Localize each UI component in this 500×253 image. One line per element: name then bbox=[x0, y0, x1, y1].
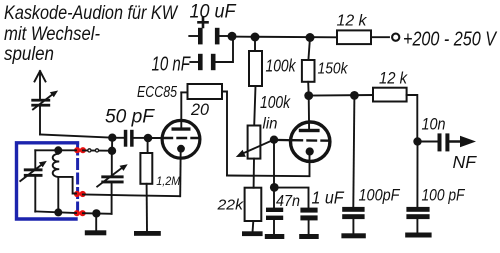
resistor 12 k (HT feed) bbox=[337, 30, 389, 44]
svg-text:spulen: spulen bbox=[4, 44, 54, 65]
svg-text:150k: 150k bbox=[318, 61, 349, 78]
wire bottom contact to ground / C2 bbox=[83, 212, 112, 215]
node rail B bbox=[251, 33, 260, 42]
wire top contact to grid node bbox=[83, 149, 108, 151]
svg-text:12 k: 12 k bbox=[337, 12, 368, 29]
svg-text:+200 - 250 V: +200 - 250 V bbox=[403, 27, 498, 50]
HT rail wire bbox=[229, 36, 337, 39]
svg-text:50 pF: 50 pF bbox=[105, 107, 155, 128]
node rail A bbox=[228, 32, 237, 41]
capacitor 10 uF electrolytic bbox=[189, 28, 229, 45]
svg-text:ECC85: ECC85 bbox=[137, 84, 177, 101]
resistor 100k (divider top) bbox=[249, 37, 262, 126]
wire antenna to grid node bbox=[40, 135, 109, 138]
trimmer capacitor C1 in coil unit bbox=[20, 150, 47, 211]
triode V2 ECC85 bbox=[274, 96, 330, 162]
node ground tap bbox=[92, 209, 100, 217]
capacitor 100 pF (first) bbox=[342, 95, 364, 233]
svg-text:1,2M: 1,2M bbox=[156, 174, 181, 188]
bead small circle 2 bbox=[95, 149, 98, 152]
wire grid V2 column bbox=[273, 140, 275, 188]
svg-text:10 nF: 10 nF bbox=[152, 54, 192, 76]
svg-text:lin: lin bbox=[263, 116, 278, 133]
svg-text:10 uF: 10 uF bbox=[190, 1, 237, 22]
svg-text:20: 20 bbox=[190, 100, 209, 119]
wire linking nodes bbox=[111, 138, 113, 151]
capacitor 1 uF bbox=[300, 208, 317, 234]
node NF takeoff bbox=[413, 137, 421, 145]
wire tank bottom inside box bbox=[35, 211, 76, 213]
triode V1 ECC85 bbox=[162, 92, 200, 196]
node grid V1 bbox=[144, 134, 153, 143]
svg-text:22k: 22k bbox=[216, 198, 243, 214]
plug contact pair top (red) bbox=[74, 147, 86, 153]
coil unit enclosure (blue box) bbox=[17, 143, 78, 219]
resistor 150k bbox=[302, 38, 315, 96]
antenna trimmer capacitor bbox=[31, 91, 58, 135]
resistor 12 k (output filter) bbox=[373, 88, 417, 142]
wire middle contact to cathode V1 bbox=[83, 195, 180, 197]
node coil top bbox=[54, 146, 62, 154]
capacitor 50 pF bbox=[116, 130, 144, 147]
ground (47n) bbox=[265, 234, 285, 239]
svg-text:1 uF: 1 uF bbox=[312, 188, 345, 208]
plug contact pair bottom (red) bbox=[74, 210, 86, 216]
coil tap wire bbox=[58, 177, 76, 194]
wire cascode link to cathode V2 bbox=[227, 152, 310, 176]
antenna arrow bbox=[35, 71, 46, 100]
plug-in separation line (blue dashed) bbox=[76, 145, 79, 217]
resistor 1,2M bbox=[140, 138, 152, 231]
wire grid node to V1 bbox=[148, 137, 164, 139]
svg-text:100pF: 100pF bbox=[359, 187, 401, 205]
ground (100pF first) bbox=[341, 233, 365, 238]
capacitor 47n bbox=[266, 187, 283, 234]
NF output arrow bbox=[449, 136, 476, 147]
potentiometer 100k lin bbox=[236, 126, 273, 188]
wire tank top inside box bbox=[35, 149, 76, 151]
capacitor 10 nF bbox=[190, 37, 233, 70]
ground (1uF) bbox=[299, 234, 319, 239]
svg-text:Kaskode-Audion für KW: Kaskode-Audion für KW bbox=[4, 3, 179, 24]
plug contact pair middle (red) bbox=[74, 191, 86, 197]
node output filter bbox=[350, 91, 359, 100]
capacitor 100 pF (second) bbox=[406, 142, 429, 233]
wire anode junction bbox=[309, 94, 373, 97]
ground (1,2M) bbox=[134, 231, 161, 236]
svg-text:100k: 100k bbox=[260, 92, 291, 112]
svg-text:10n: 10n bbox=[422, 115, 446, 133]
wire grid bypass to 1uF bbox=[274, 188, 308, 208]
value labels bbox=[105, 1, 498, 213]
ground (100pF second) bbox=[405, 233, 431, 238]
node anode V2 bbox=[304, 91, 313, 100]
resistor 20 (anode stopper) bbox=[181, 84, 227, 176]
ground (22k) bbox=[242, 231, 263, 236]
capacitor 10n bbox=[418, 133, 450, 151]
bead small circle 1 bbox=[88, 149, 91, 152]
ground (tank) bbox=[85, 213, 107, 235]
svg-text:100k: 100k bbox=[266, 56, 297, 76]
terminal +200-250V bbox=[392, 34, 399, 41]
node grid column upper bbox=[108, 134, 116, 142]
node grid V2 bbox=[270, 136, 278, 144]
node coil bottom bbox=[54, 208, 62, 216]
svg-text:NF: NF bbox=[453, 152, 478, 172]
tuning capacitor C2 bbox=[97, 151, 128, 214]
node grid bypass bbox=[270, 183, 279, 192]
svg-text:12 k: 12 k bbox=[379, 70, 408, 88]
plus sign bbox=[199, 18, 208, 28]
svg-text:100 pF: 100 pF bbox=[422, 187, 466, 205]
svg-text:47n: 47n bbox=[276, 193, 300, 210]
title text bbox=[4, 3, 179, 65]
node rail C bbox=[306, 33, 315, 42]
node grid column lower bbox=[108, 147, 116, 155]
coil L1 bbox=[53, 150, 59, 213]
svg-text:mit Wechsel-: mit Wechsel- bbox=[4, 24, 100, 45]
resistor 22k bbox=[245, 188, 262, 232]
